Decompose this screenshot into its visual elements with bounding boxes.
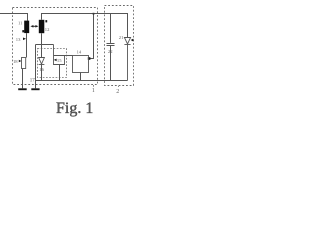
pointer square (12) [45, 20, 47, 22]
wire: bottom rail [36, 80, 128, 82]
label 2 [116, 86, 119, 95]
svg-text:12: 12 [45, 27, 50, 32]
label 18 [13, 59, 21, 64]
svg-text:21: 21 [119, 35, 124, 40]
label 1 [92, 85, 95, 94]
svg-text:14: 14 [77, 49, 82, 54]
box 15 [54, 45, 65, 65]
svg-text:18: 18 [13, 59, 18, 64]
label 15 [54, 58, 62, 63]
inner dashed box 17 [38, 49, 67, 78]
svg-text:13: 13 [16, 37, 21, 42]
svg-text:22: 22 [108, 49, 113, 54]
transducer 12 [39, 20, 45, 33]
wire: transducer 12 down to mid rail [41, 33, 43, 44]
wire: transducer 11 down to resistor 18 [26, 33, 28, 57]
diode 21 [124, 38, 130, 81]
transducer 11 [24, 21, 29, 33]
wire: box 15 bottom to rail [59, 65, 61, 81]
wire: down to diode 16 [41, 45, 43, 58]
wire: mid rail left drop to ground [35, 45, 37, 89]
wire: diode 16 to bottom rail [41, 65, 43, 81]
junction on top rail [93, 13, 95, 15]
capacitor 22 [107, 14, 115, 81]
resistor 18 [22, 58, 26, 69]
svg-text:1: 1 [92, 88, 95, 94]
diode 16 [39, 58, 45, 65]
coupling arrow [30, 25, 38, 28]
junction dot at box 14 right [88, 57, 91, 60]
wire: tap from top rail down to box 14 right side [89, 14, 94, 59]
wire: box 15 to box 14 [65, 55, 73, 57]
ground (middle) [31, 88, 39, 90]
wire: resistor 18 to ground [22, 69, 24, 89]
svg-text:17: 17 [30, 79, 36, 84]
wire: mid rail [36, 44, 54, 46]
wire: transducer 12 up to top rail, across to diode 21 [42, 14, 128, 38]
wire: box 14 bottom to rail [80, 73, 82, 81]
ground (left) [18, 88, 27, 90]
svg-text:11: 11 [18, 21, 23, 26]
dashed box unit 1 [13, 8, 98, 85]
dashed box unit 2 [105, 6, 134, 86]
svg-text:15: 15 [57, 58, 62, 63]
pointer square (11) [22, 30, 24, 32]
box 14 [73, 56, 89, 73]
arrow at diode 21 [131, 39, 134, 42]
wire: top rail left segment into transducer 11 [0, 14, 28, 21]
svg-text:2: 2 [116, 89, 119, 95]
svg-text:Fig. 1: Fig. 1 [56, 100, 93, 117]
node 13 label [16, 37, 26, 42]
